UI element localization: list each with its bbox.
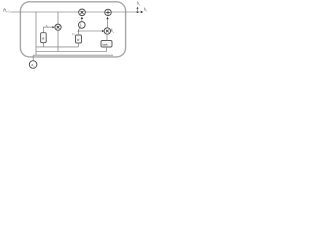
wire sigma2 stub down bbox=[78, 43, 80, 47]
svg-text:t: t bbox=[113, 31, 114, 34]
arrowhead into update multiply bbox=[102, 30, 104, 32]
wire output up stem bbox=[137, 9, 139, 12]
wire bottom bus bbox=[33, 54, 113, 56]
wire r gate output elbow bbox=[44, 27, 53, 33]
wire z gate up bbox=[78, 31, 80, 35]
wire update multiply up stem bbox=[107, 19, 109, 28]
wire reset product down to line B bbox=[57, 30, 59, 51]
op add circle bbox=[105, 9, 111, 15]
node h(t) label right bbox=[144, 8, 148, 13]
node r(t) label bbox=[46, 23, 49, 28]
junction z split dot bbox=[78, 30, 80, 32]
op multiply reset circle bbox=[55, 24, 61, 30]
node h(t-1) label bbox=[3, 9, 10, 14]
wire z to one-minus bbox=[79, 28, 81, 31]
wire fan line B bbox=[36, 51, 107, 53]
svg-text:t: t bbox=[139, 4, 140, 7]
cell body box bbox=[20, 2, 125, 57]
gate sigma1 box bbox=[41, 33, 47, 43]
arrowhead into reset multiply bbox=[52, 26, 54, 28]
wire fan line A bbox=[36, 46, 79, 48]
wire sigma1 stub down bbox=[43, 43, 45, 47]
gate sigma2 box bbox=[76, 35, 82, 43]
svg-text:t: t bbox=[74, 34, 75, 36]
wire z to update multiply bbox=[79, 30, 103, 32]
node h(t) label top bbox=[137, 2, 141, 7]
wire drop from h line to reset multiply bbox=[57, 12, 59, 24]
arrowhead into main multiply bbox=[81, 17, 83, 19]
node z(t) label bbox=[71, 32, 75, 37]
wire output up arrowhead bbox=[136, 7, 138, 9]
junction dot output bbox=[137, 11, 139, 13]
wire drop from h line to bottom bus bbox=[35, 12, 37, 55]
svg-text:t-1: t-1 bbox=[6, 10, 10, 14]
gate tanh box bbox=[101, 41, 112, 48]
op multiply main circle bbox=[79, 9, 86, 16]
wire tanh stub down bbox=[106, 47, 108, 52]
svg-text:tanh: tanh bbox=[102, 43, 108, 47]
wire x(t) riser bbox=[32, 55, 34, 61]
arrowhead into add bbox=[106, 17, 108, 19]
op multiply update circle bbox=[104, 28, 110, 34]
wire main h line bbox=[11, 11, 142, 13]
wire tanh up to update multiply bbox=[106, 34, 108, 40]
svg-text:t: t bbox=[146, 10, 147, 13]
wire output arrowhead right bbox=[141, 11, 143, 13]
node x(t) input circle bbox=[29, 61, 37, 69]
wire one-minus up stem bbox=[81, 19, 83, 22]
op one-minus circle bbox=[79, 22, 86, 29]
node h-tilde label bbox=[111, 28, 115, 34]
